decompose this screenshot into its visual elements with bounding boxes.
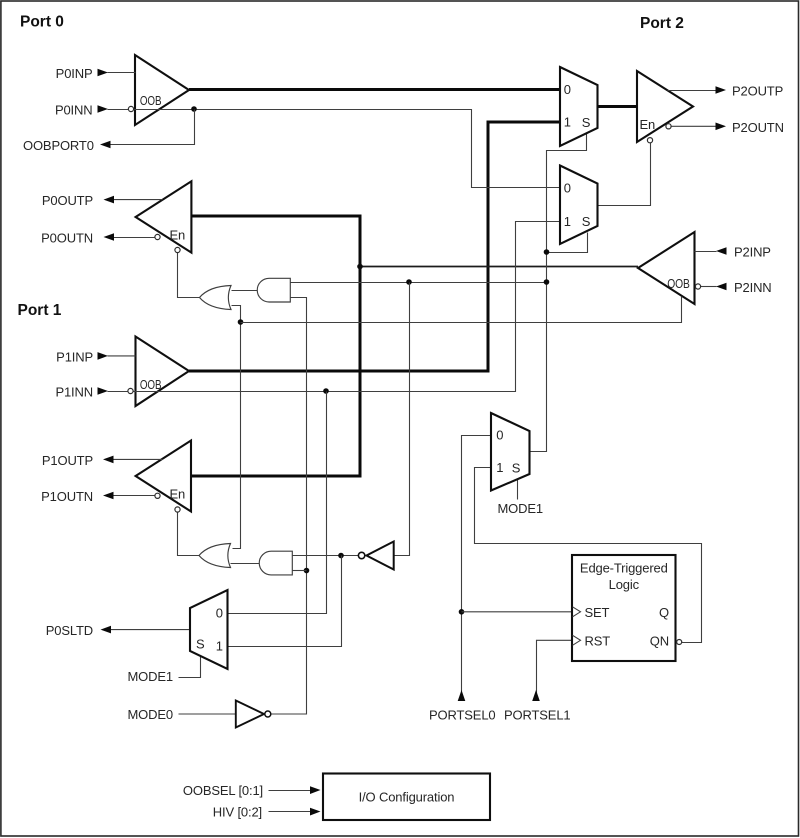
wire inverter U9 output to AND U2 input 1 (292, 555, 358, 557)
arrowhead P0INN (98, 105, 109, 113)
svg-text:0: 0 (496, 428, 503, 443)
wire P0INN lead (108, 109, 129, 111)
wire AND U2 output to OR U4 input 2 (231, 563, 260, 565)
bubble P2OUT En (647, 138, 652, 143)
wire P1INN passthrough to mux U6 pin 1 (134, 222, 561, 392)
bubble P0OUTN (155, 234, 160, 239)
wire OOBPORT0 branch (111, 110, 195, 145)
bubble QN output (677, 640, 682, 645)
wire stub AND U2 input 2 (292, 570, 306, 572)
svg-text:SET: SET (585, 605, 610, 620)
arrowhead P0OUTN (104, 233, 115, 241)
wire HIV lead (269, 811, 311, 813)
wire AND U1 input 2 from MODE0 net (271, 298, 306, 715)
svg-text:Port 0: Port 0 (20, 13, 64, 30)
svg-text:S: S (582, 214, 591, 229)
arrowhead OOBSEL (310, 786, 321, 794)
arrowhead PORTSEL0 (458, 690, 466, 701)
wire MODE0 to inverter U10 (179, 713, 236, 715)
wire P1INN lead (108, 391, 128, 393)
svg-text:P0INN: P0INN (55, 103, 93, 118)
arrowhead PORTSEL1 (532, 690, 540, 701)
wire mux U8 output to P0SLTD (111, 629, 191, 631)
svg-text:1: 1 (564, 214, 571, 229)
pin chevron RST (573, 635, 581, 645)
arrowhead P1INP (98, 352, 109, 360)
box Edge-Triggered Logic U11 (572, 555, 676, 661)
OR gate U4 (left pointing) (199, 544, 231, 568)
wire P2INP lead (695, 251, 717, 253)
buffer P0 input (OOB) (135, 55, 189, 125)
svg-text:QN: QN (650, 633, 669, 648)
wire P1OUTN lead (114, 495, 155, 497)
buffer P2 input (OOB) (638, 232, 695, 304)
svg-text:P0SLTD: P0SLTD (46, 623, 93, 638)
wire mux U8 pin 1 from inverter output (228, 556, 342, 647)
node junction P2 OOB net at x241 (238, 319, 244, 325)
svg-text:Port 2: Port 2 (640, 15, 684, 32)
node junction MODE0 net at AND U2 input 2 (304, 568, 310, 574)
wire OR U4 output to P1 output buffer En (178, 513, 200, 556)
node junction select branch to inverter U9 (406, 279, 412, 285)
wire mux U7 pin 0 and PORTSEL0 vertical (462, 436, 492, 701)
inverter U10 (MODE0, right pointing with bubble) (236, 701, 264, 728)
arrowhead P0SLTD (101, 626, 112, 634)
mux U8 (P0SLTD mux, mirrored) (190, 590, 228, 669)
arrowhead OOBPORT0 (100, 141, 111, 149)
svg-text:Port 1: Port 1 (18, 302, 62, 319)
wire thick P0 input to mux U5 pin 0 (189, 88, 560, 91)
buffer P2 output (En) (637, 71, 693, 142)
wire OR U3 input 2 down to OR U4 input 1 (232, 306, 241, 549)
svg-text:1: 1 (496, 460, 503, 475)
svg-text:1: 1 (564, 115, 571, 130)
svg-text:P1OUTN: P1OUTN (41, 489, 93, 504)
svg-text:PORTSEL1: PORTSEL1 (504, 708, 570, 723)
svg-text:OOB: OOB (140, 93, 162, 108)
svg-text:MODE0: MODE0 (128, 707, 173, 722)
wire P0INP lead (108, 72, 136, 74)
wire mux U6 output to P2 output buffer En bubble (598, 143, 651, 206)
svg-text:Edge-Triggered: Edge-Triggered (580, 560, 668, 575)
wire mux U7 S pin stub (517, 478, 519, 500)
node junction P2 in on thick vertical (357, 264, 363, 270)
svg-text:MODE1: MODE1 (498, 501, 543, 516)
svg-text:P2OUTN: P2OUTN (732, 120, 784, 135)
wire P2 OOB output line across (241, 297, 682, 323)
AND gate U1 (left pointing) (257, 278, 290, 302)
svg-text:Logic: Logic (609, 577, 640, 592)
buffer P0 output (En) (136, 181, 192, 252)
svg-text:OOBSEL [0:1]: OOBSEL [0:1] (183, 783, 263, 798)
wire thick P2 input signal to P0 and P1 output buffers (192, 216, 361, 476)
wire select net vertical from mux U7 output to mux U5 S (530, 134, 587, 452)
svg-text:OOB: OOB (140, 377, 162, 392)
mux U5 top (P2 transmit mux) (560, 67, 598, 146)
wire P2 input buffer output to node on thick vertical (360, 266, 638, 268)
arrowhead P2OUTP (716, 86, 727, 94)
wire mux U6 S pin branch (547, 233, 588, 253)
svg-text:P2INN: P2INN (734, 280, 772, 295)
svg-text:P1INN: P1INN (55, 385, 93, 400)
wire P2OUTP lead (668, 90, 717, 92)
wire P2OUTN lead (671, 125, 716, 127)
bubble P1INN input (128, 388, 133, 393)
svg-text:Q: Q (659, 605, 669, 620)
svg-text:En: En (170, 487, 186, 502)
node junction inverter output branch to mux U8 pin 1 (338, 553, 344, 559)
svg-text:P0OUTN: P0OUTN (41, 231, 93, 246)
buffer P1 input (OOB) (136, 337, 190, 407)
svg-text:P0INP: P0INP (56, 66, 93, 81)
node junction OOBPORT0 tap (191, 106, 197, 112)
wire OOBSEL lead (269, 790, 311, 792)
wire mux U8 S pin to MODE1 (179, 657, 201, 678)
svg-text:S: S (582, 115, 591, 130)
svg-text:P1OUTP: P1OUTP (42, 453, 93, 468)
wire thick P1 input to mux U5 pin 1 (189, 122, 560, 371)
bubble of inverter U10 (265, 711, 271, 717)
svg-text:PORTSEL0: PORTSEL0 (429, 708, 495, 723)
svg-text:P1INP: P1INP (56, 349, 93, 364)
arrowhead P1OUTN (103, 492, 114, 500)
svg-text:1: 1 (216, 639, 223, 654)
wire P0INN passthrough to mux U6 pin 0 (134, 110, 561, 188)
arrowhead HIV (310, 808, 321, 816)
svg-text:P2OUTP: P2OUTP (732, 84, 783, 99)
arrowhead P1INN (98, 387, 109, 395)
mux U7 (PORTSEL mux) (491, 413, 530, 491)
bubble P1OUT En (175, 507, 180, 512)
svg-text:En: En (170, 228, 186, 243)
wire select branch down to inverter U9 input (394, 283, 410, 556)
svg-text:P2INP: P2INP (734, 245, 771, 260)
svg-text:S: S (512, 461, 521, 476)
wire P0OUTN lead (114, 237, 155, 239)
arrowhead P2INN (716, 283, 727, 291)
wire P2INN lead (701, 286, 717, 288)
bubble of inverter U9 (358, 552, 364, 558)
arrowhead P2INP (716, 247, 727, 255)
svg-text:En: En (640, 117, 656, 132)
box I/O Configuration (323, 774, 490, 821)
node junction PORTSEL0 at SET line (459, 609, 465, 615)
bubble P2INN input (695, 284, 700, 289)
wire QN feedback to mux U7 pin 1 (475, 468, 702, 643)
svg-text:I/O Configuration: I/O Configuration (359, 790, 455, 805)
bubble P2OUTN (666, 124, 671, 129)
svg-text:OOBPORT0: OOBPORT0 (23, 138, 94, 153)
svg-text:S: S (196, 636, 205, 651)
inverter U9 (select, left pointing with bubble) (367, 542, 394, 570)
svg-text:0: 0 (564, 82, 571, 97)
wire thick mux U5 output to P2 output buffer (598, 105, 638, 108)
svg-text:RST: RST (585, 633, 611, 648)
svg-text:MODE1: MODE1 (128, 669, 173, 684)
svg-text:OOB: OOB (667, 276, 690, 291)
svg-text:0: 0 (564, 181, 571, 196)
bubble P0INN input (128, 106, 133, 111)
pin chevron SET (573, 607, 581, 617)
wire AND U1 output to OR U3 input 1 (232, 290, 258, 292)
arrowhead P0INP (98, 69, 109, 77)
mux U6 (En select mux) (560, 166, 598, 245)
arrowhead P2OUTN (716, 123, 727, 131)
svg-text:0: 0 (216, 606, 223, 621)
wire SET input line (462, 611, 573, 613)
wire RST input line and PORTSEL1 vertical (537, 640, 573, 700)
bubble P1OUTN (155, 493, 160, 498)
wire select horizontal to AND U1 input (290, 282, 546, 284)
bubble P0OUT En (175, 247, 180, 252)
node junction select horizontal on vertical (544, 279, 550, 285)
svg-text:P0OUTP: P0OUTP (42, 193, 93, 208)
wire mux U8 pin 0 from P1INN tap (228, 392, 327, 614)
wire P1OUTP lead (114, 458, 163, 460)
arrowhead P1OUTP (103, 456, 114, 464)
svg-text:HIV [0:2]: HIV [0:2] (213, 804, 262, 819)
buffer P1 output (En) (136, 441, 191, 512)
wire OR U3 output to P0 output buffer En (178, 253, 200, 298)
AND gate U2 (left pointing) (259, 551, 292, 575)
wire P0OUTP lead (114, 199, 163, 201)
arrowhead P0OUTP (104, 196, 115, 204)
node junction select at mux U6 S (544, 249, 550, 255)
node junction P1INN tap to mux U8 pin 0 (323, 388, 329, 394)
wire P1INP lead (108, 355, 136, 357)
OR gate U3 (left pointing) (200, 286, 232, 310)
